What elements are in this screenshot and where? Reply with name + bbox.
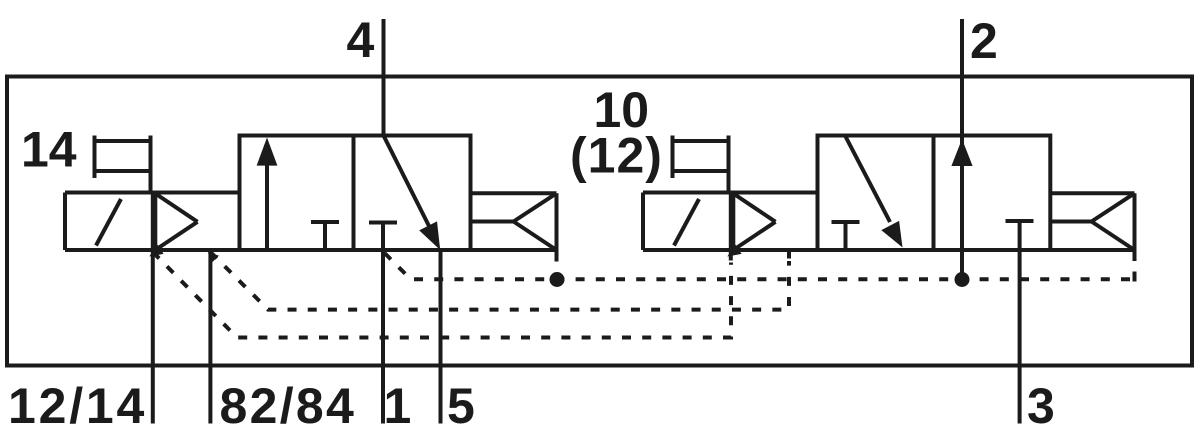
svg-text:12/14: 12/14 (8, 378, 147, 434)
pilot node stub V2 divider (729, 193, 733, 261)
blocked port T V2 square b (1006, 219, 1034, 223)
port line 1 (T stem continues below) (381, 223, 385, 424)
wire 12/14 (solid pilot port line) (151, 193, 155, 424)
dashed pilot rail 1 (from port 1 to springs) (385, 253, 1135, 279)
solenoid coil box V1 (65, 193, 240, 251)
svg-text:14: 14 (21, 122, 77, 178)
valve V1 body (two switching squares) (240, 136, 471, 251)
solenoid slash V2 (674, 199, 699, 246)
dashed pilot branch 12/14 to V2 node (rail 3) (153, 252, 731, 338)
pilot connector bracket 14 (valve V1) (95, 136, 151, 193)
svg-text:3: 3 (1027, 378, 1055, 434)
pilot amplifier triangle V2 (733, 194, 775, 250)
port line 3 (T stem continues below) (1018, 221, 1022, 424)
port line 4 (382, 19, 386, 136)
blocked port T V2 square a (832, 222, 860, 250)
blocked port T V1 square a (311, 222, 339, 250)
flow diagonal V2 square a (2 to 3) (845, 136, 903, 248)
junction dot node A (pilot supply, V1 spring) (550, 272, 565, 287)
svg-text:82/84: 82/84 (220, 378, 357, 434)
enclosure frame (valve manifold boundary) (7, 77, 1192, 366)
flow arrow V1 square a (257, 138, 278, 251)
flow diagonal V1 square b (4 to 5) (384, 136, 441, 251)
wire 82/84 (solid pilot port line) (208, 251, 212, 424)
pilot arrowhead V2 (727, 245, 741, 257)
svg-text:1: 1 (384, 378, 412, 434)
svg-text:5: 5 (447, 378, 475, 434)
pilot amplifier triangle V1 (155, 194, 197, 250)
port line 2 (960, 19, 964, 280)
flow arrowhead V2 square b (on line 2) (951, 139, 972, 166)
blocked port T V1 square b (369, 221, 397, 225)
junction dot node B (pilot supply at line 2) (955, 272, 970, 287)
return spring V1 (471, 193, 557, 261)
solenoid coil box V2 (643, 193, 818, 251)
end dash of pilot rail at V2 spring (1133, 272, 1137, 282)
svg-text:4: 4 (347, 12, 375, 68)
dashed pilot branch 82/84 to V2 pilot (rail 2) (210, 252, 789, 310)
solenoid slash V1 (96, 199, 121, 246)
pilot supply stub V2 (node 84 side) (787, 250, 791, 259)
pilot arrowhead V1 (into node 12/14) (149, 245, 163, 257)
pilot arrowhead 82/84 (208, 252, 219, 262)
pilot connector bracket 10/(12) (valve V2) (673, 136, 729, 193)
svg-text:2: 2 (970, 13, 998, 69)
return spring V2 (1050, 193, 1134, 261)
svg-text:(12): (12) (570, 128, 663, 184)
port line 5 (439, 250, 443, 424)
valve V2 body (two switching squares) (818, 136, 1051, 251)
